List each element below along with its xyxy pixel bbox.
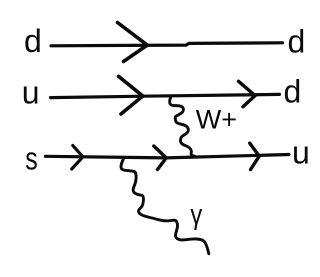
svg-text:W+: W+ [196, 105, 237, 135]
arrowhead 2 on s line [154, 146, 167, 170]
W+ boson wavy propagator [170, 96, 195, 157]
svg-text:γ: γ [190, 198, 203, 231]
svg-text:u: u [292, 135, 310, 171]
quark line u->d (middle fermion line) [51, 94, 280, 97]
arrowhead on d line [118, 23, 148, 62]
arrowhead 1 on u line [119, 76, 143, 114]
quark line s->u (bottom fermion line) [46, 155, 289, 158]
arrowhead 3 on s line [250, 143, 260, 169]
svg-text:d: d [288, 24, 306, 60]
svg-text:d: d [284, 74, 302, 110]
arrowhead 2 on u line [239, 81, 256, 107]
svg-text:s: s [25, 141, 37, 177]
arrowhead 1 on s line [72, 146, 83, 170]
quark line d->d (top fermion line) [51, 43, 283, 46]
svg-text:u: u [22, 75, 40, 111]
svg-text:d: d [24, 23, 42, 59]
photon wavy line (gamma) [121, 158, 209, 254]
